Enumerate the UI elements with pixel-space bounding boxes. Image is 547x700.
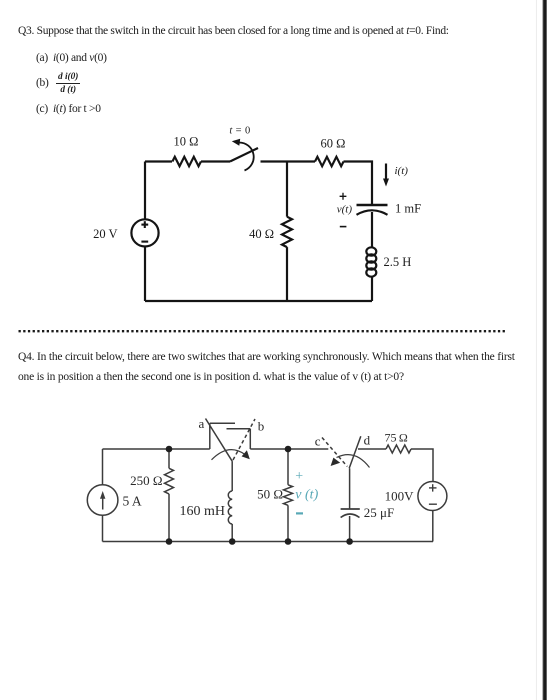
svg-text:a: a xyxy=(199,416,205,431)
svg-text:50 Ω: 50 Ω xyxy=(257,487,283,502)
svg-text:10 Ω: 10 Ω xyxy=(174,135,199,149)
svg-text:b: b xyxy=(258,419,265,434)
svg-text:20 V: 20 V xyxy=(93,227,117,241)
svg-text:25 μF: 25 μF xyxy=(364,505,394,520)
svg-text:1 mF: 1 mF xyxy=(395,202,421,216)
svg-text:d: d xyxy=(364,433,371,448)
svg-text:250 Ω: 250 Ω xyxy=(130,473,162,488)
svg-text:v(t): v(t) xyxy=(337,204,353,216)
svg-text:v (t): v (t) xyxy=(295,487,318,502)
svg-text:2.5 H: 2.5 H xyxy=(384,255,412,269)
svg-text:c: c xyxy=(315,434,321,449)
svg-text:75 Ω: 75 Ω xyxy=(385,431,408,445)
svg-text:60 Ω: 60 Ω xyxy=(321,137,346,151)
svg-text:i(t): i(t) xyxy=(395,165,409,177)
svg-text:5 A: 5 A xyxy=(123,494,142,509)
svg-text:160 mH: 160 mH xyxy=(180,504,226,519)
svg-text:40 Ω: 40 Ω xyxy=(249,227,274,241)
svg-text:100V: 100V xyxy=(385,489,415,504)
svg-text:+: + xyxy=(295,469,303,484)
svg-text:t = 0: t = 0 xyxy=(229,126,250,137)
